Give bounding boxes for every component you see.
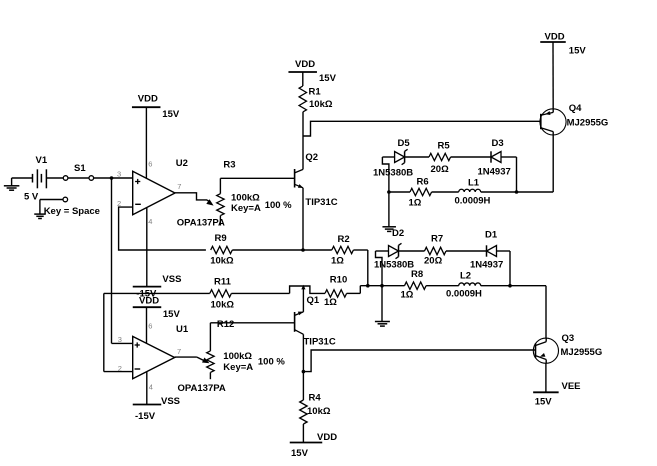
svg-text:10kΩ: 10kΩ [307,406,331,417]
svg-text:15V: 15V [162,109,180,120]
svg-text:1Ω: 1Ω [331,256,344,267]
svg-text:R10: R10 [330,275,347,286]
svg-text:7: 7 [177,347,181,356]
svg-text:OPA137PA: OPA137PA [177,217,225,228]
svg-text:Q1: Q1 [307,295,320,306]
svg-text:0.0009H: 0.0009H [446,289,482,300]
svg-text:MJ2955G: MJ2955G [561,347,603,358]
svg-text:U2: U2 [176,158,188,169]
svg-text:L1: L1 [468,178,480,189]
svg-text:R12: R12 [217,319,234,330]
svg-text:VDD: VDD [545,31,565,42]
svg-text:S1: S1 [74,163,86,174]
svg-text:R6: R6 [417,177,429,188]
svg-text:Key=A: Key=A [223,362,253,373]
svg-text:6: 6 [148,322,152,331]
svg-text:15V: 15V [319,73,337,84]
svg-text:D3: D3 [492,138,504,149]
svg-text:R1: R1 [309,87,322,98]
svg-text:10kΩ: 10kΩ [210,255,234,266]
svg-text:3: 3 [117,170,121,179]
svg-text:D1: D1 [485,230,498,241]
svg-text:R9: R9 [215,233,227,244]
svg-text:VDD: VDD [317,432,337,443]
svg-text:MJ2955G: MJ2955G [567,117,609,128]
svg-text:3: 3 [118,335,122,344]
svg-text:20Ω: 20Ω [431,164,450,175]
svg-text:D2: D2 [392,228,404,239]
svg-text:100kΩ: 100kΩ [223,351,252,362]
svg-text:10kΩ: 10kΩ [309,99,333,110]
svg-text:1Ω: 1Ω [409,198,422,209]
svg-text:VSS: VSS [162,274,181,285]
svg-text:VDD: VDD [139,296,159,307]
svg-text:7: 7 [177,182,181,191]
svg-text:20Ω: 20Ω [424,256,443,267]
svg-text:D5: D5 [398,138,411,149]
svg-text:6: 6 [148,160,152,169]
svg-text:TIP31C: TIP31C [304,337,336,348]
svg-text:VDD: VDD [295,59,315,70]
svg-text:R3: R3 [223,160,235,171]
svg-text:R11: R11 [214,277,232,288]
svg-text:R5: R5 [438,141,451,152]
svg-text:100 %: 100 % [258,357,285,368]
svg-text:V1: V1 [36,155,48,166]
svg-text:2: 2 [117,199,121,208]
svg-text:TIP31C: TIP31C [305,197,337,208]
svg-text:Q4: Q4 [569,103,582,114]
svg-text:L2: L2 [460,271,471,282]
svg-text:15V: 15V [163,309,181,320]
svg-text:VSS: VSS [161,396,180,407]
svg-text:Key=A: Key=A [231,203,261,214]
svg-text:2: 2 [118,364,122,373]
svg-text:Q2: Q2 [305,152,318,163]
svg-text:15V: 15V [535,396,553,407]
svg-text:U1: U1 [176,324,189,335]
svg-text:100kΩ: 100kΩ [231,193,260,204]
svg-text:R7: R7 [431,234,443,245]
svg-text:Key = Space: Key = Space [44,206,100,217]
svg-text:R2: R2 [338,234,350,245]
svg-text:R8: R8 [411,269,423,280]
svg-text:15V: 15V [569,46,587,57]
svg-text:4: 4 [149,383,153,392]
svg-text:VEE: VEE [562,381,581,392]
svg-text:VDD: VDD [138,94,158,105]
svg-text:1N4937: 1N4937 [478,167,511,178]
svg-text:15V: 15V [291,448,309,459]
svg-text:R4: R4 [309,393,322,404]
svg-text:1N5380B: 1N5380B [374,260,414,271]
svg-text:1Ω: 1Ω [324,297,337,308]
svg-text:1N4937: 1N4937 [470,260,503,271]
svg-text:Q3: Q3 [562,333,575,344]
svg-text:0.0009H: 0.0009H [455,196,491,207]
svg-text:5 V: 5 V [24,192,39,203]
svg-text:4: 4 [148,217,152,226]
svg-text:1N5380B: 1N5380B [373,167,413,178]
svg-text:1Ω: 1Ω [401,290,414,301]
svg-text:OPA137PA: OPA137PA [178,383,226,394]
svg-text:-15V: -15V [135,411,156,422]
svg-text:10kΩ: 10kΩ [211,299,235,310]
svg-text:100 %: 100 % [265,200,292,211]
